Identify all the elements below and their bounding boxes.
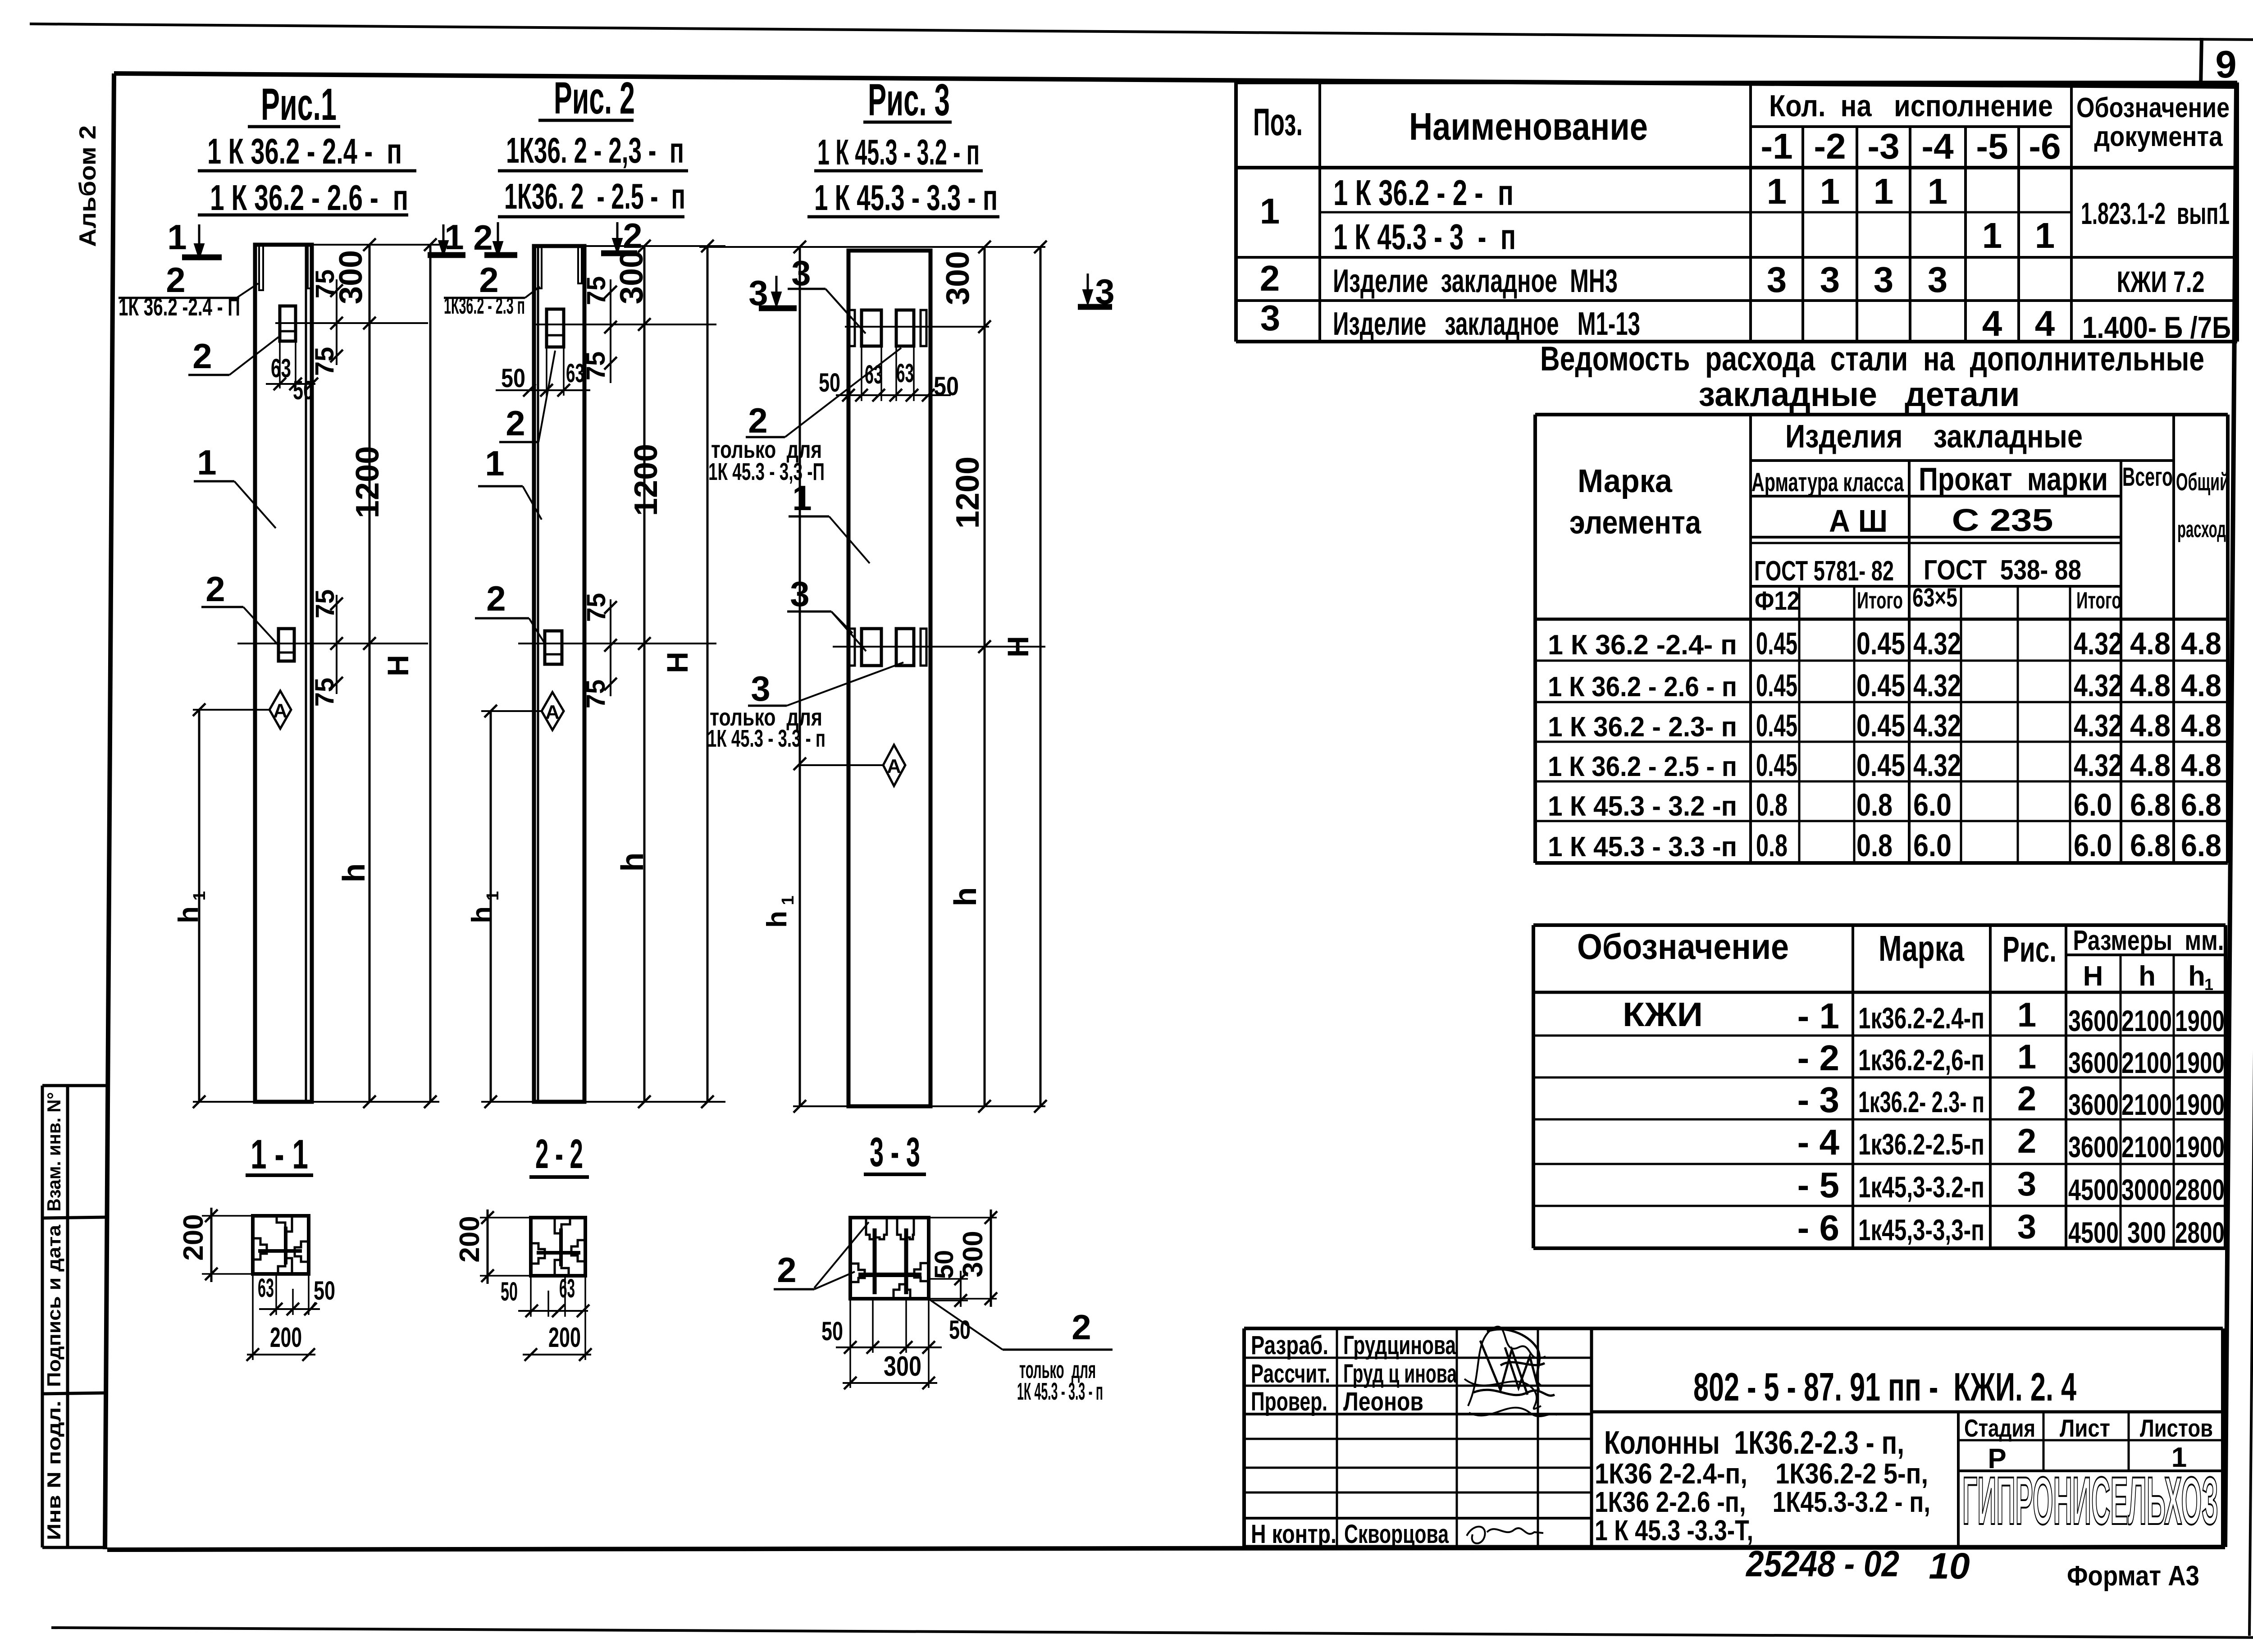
figure 1 extension line top [255,244,439,246]
svg-text:0.8: 0.8 [1756,787,1788,822]
svg-text:1200: 1200 [628,444,664,516]
svg-text:1к45,3-3,3-п: 1к45,3-3,3-п [1858,1213,1984,1246]
svg-text:-6: -6 [2029,126,2061,166]
svg-text:1к36.2-2.4-п: 1к36.2-2.4-п [1858,1001,1984,1035]
svg-text:50: 50 [293,376,314,405]
svg-text:4.8: 4.8 [2181,626,2221,661]
svg-text:50: 50 [930,1250,959,1279]
figure 2 section mark 2 right [616,222,619,242]
svg-text:1к36.2-2,6-п: 1к36.2-2,6-п [1858,1043,1984,1077]
svg-text:3: 3 [1874,260,1894,300]
section 2-2 channel top [555,1219,570,1233]
svg-text:1 - 1: 1 - 1 [251,1132,308,1177]
svg-text:Кол. на исполнение: Кол. на исполнение [1769,89,2053,123]
svg-text:Формат А3: Формат А3 [2067,1561,2199,1592]
svg-text:1: 1 [1260,191,1280,231]
svg-text:1900: 1900 [2175,1046,2225,1079]
svg-text:Марка: Марка [1578,463,1673,499]
svg-text:6.0: 6.0 [2074,787,2112,822]
section 2-2 channel right [571,1240,584,1261]
figure 1 dim text 300 [333,250,369,304]
figure 1 top notch left [259,245,263,290]
svg-text:Скворцова: Скворцова [1344,1520,1449,1549]
svg-text:Наименование: Наименование [1409,105,1648,148]
figure 3 top extension line [699,246,1045,248]
svg-text:Рис.: Рис. [2002,929,2057,969]
svg-text:3: 3 [790,574,809,614]
svg-text:2: 2 [1072,1307,1091,1347]
svg-text:63: 63 [559,1274,575,1303]
svg-text:10: 10 [1929,1546,1970,1587]
figure 3 dim text 1200 [950,456,986,529]
svg-text:6.8: 6.8 [2181,787,2221,822]
svg-text:Прокат марки: Прокат марки [1919,461,2108,497]
svg-text:2: 2 [2017,1080,2036,1118]
steel table grid [1535,413,2228,416]
svg-text:1200: 1200 [350,446,386,518]
figure 3 section A diamond [883,745,905,786]
album label [75,125,101,247]
svg-text:4.32: 4.32 [1913,626,1961,661]
svg-text:1: 1 [2017,996,2036,1034]
figure 1 dim text h [336,863,371,883]
svg-text:Стадия: Стадия [1964,1414,2035,1442]
figure 3 extension line bottom [793,1105,1045,1107]
svg-text:0.45: 0.45 [1756,748,1797,783]
svg-text:63: 63 [258,1273,274,1303]
svg-text:75: 75 [310,678,339,707]
svg-text:0.8: 0.8 [1756,828,1788,863]
svg-text:1: 1 [197,443,216,482]
svg-text:4.8: 4.8 [2130,708,2171,743]
svg-text:- 3: - 3 [1797,1080,1839,1120]
svg-text:4.32: 4.32 [1913,668,1961,703]
section 3-3 channel bottom [894,1284,910,1298]
figure 3 level line row2 [833,646,1045,648]
svg-text:200: 200 [178,1214,209,1260]
svg-text:1900: 1900 [2175,1004,2225,1037]
svg-text:2: 2 [506,403,525,443]
figure 2 upper embed plate 2 [547,309,564,347]
figure 2 dim line H [707,246,709,1102]
svg-text:Инв N подл.: Инв N подл. [43,1401,64,1540]
figure 2 top notch right [578,246,582,283]
svg-text:Н: Н [661,652,694,673]
svg-text:-2: -2 [1814,126,1846,166]
svg-text:75: 75 [310,269,340,299]
svg-text:1 К 36.2 - 2.3- п: 1 К 36.2 - 2.3- п [1548,712,1737,743]
svg-text:Листов: Листов [2140,1414,2213,1442]
svg-text:50: 50 [314,1276,335,1305]
section 1-1 center cross [258,1249,302,1253]
figure 2 top notch left [535,246,542,288]
svg-text:А Ш: А Ш [1829,503,1888,538]
svg-text:75: 75 [581,680,611,709]
section 2-2 center cross [537,1251,580,1255]
svg-text:h: h [615,853,650,872]
svg-text:3: 3 [1260,298,1281,338]
svg-text:25248 - 02: 25248 - 02 [1745,1543,1899,1584]
svg-text:4.8: 4.8 [2130,668,2171,703]
svg-text:75: 75 [582,593,611,622]
svg-text:3600: 3600 [2068,1130,2119,1164]
svg-text:-5: -5 [1976,126,2008,166]
title block grid [1244,1327,2223,1330]
svg-text:0.45: 0.45 [1756,668,1797,703]
svg-text:Альбом 2: Альбом 2 [75,125,101,247]
svg-text:2: 2 [486,579,506,618]
section 1-1 dim 200 bottom [252,1274,254,1360]
figure 3 dim text H [1001,636,1035,657]
svg-text:2100: 2100 [2121,1004,2172,1037]
svg-text:3: 3 [791,253,811,293]
svg-text:1К 45.3 - 3.3 - п: 1К 45.3 - 3.3 - п [707,725,825,752]
outer border top line [30,24,2253,40]
svg-text:0.45: 0.45 [1856,626,1905,661]
title block signature scribbles [1468,1327,1546,1406]
svg-text:1: 1 [1820,171,1840,211]
svg-text:1 К 36.2 -2.4- п: 1 К 36.2 -2.4- п [1548,630,1737,661]
section 1-1 channel bottom [278,1258,292,1273]
svg-text:Рис.1: Рис.1 [261,79,337,130]
figure 1 section mark 1 right [442,224,445,244]
svg-text:1: 1 [190,891,209,900]
svg-text:1К36.2 - 2.3 п: 1К36.2 - 2.3 п [444,293,525,319]
svg-text:63: 63 [896,359,914,388]
section 3-3 bar right [904,1228,908,1294]
svg-text:- 5: - 5 [1797,1165,1839,1205]
svg-text:- 1: - 1 [1797,996,1839,1036]
svg-text:1 К 36.2 - 2.4 - п: 1 К 36.2 - 2.4 - п [207,131,402,171]
svg-text:50: 50 [501,1277,518,1306]
svg-text:1К 36.2 -2.4 - П: 1К 36.2 -2.4 - П [119,292,240,321]
svg-text:1К36 2-2.4-п, 1К36.2-2 5-п,: 1К36 2-2.4-п, 1К36.2-2 5-п, [1595,1457,1928,1490]
section 2-2 channel bottom [555,1260,569,1275]
section 3-3 dim 50-50 bottom [849,1299,851,1388]
svg-text:элемента: элемента [1569,505,1701,541]
svg-text:4.8: 4.8 [2181,708,2221,743]
svg-text:1К36. 2 - 2,3 - п: 1К36. 2 - 2,3 - п [506,130,684,170]
figure 3 dims 50-63-63-50 [861,346,862,401]
svg-text:Взам. инв. N°: Взам. инв. N° [43,1092,64,1212]
svg-text:2800: 2800 [2175,1173,2225,1206]
figure 2 dim text 1200 [628,444,664,516]
svg-text:1 К 45.3 - 3.2 - п: 1 К 45.3 - 3.2 - п [817,132,980,172]
svg-text:Разраб.: Разраб. [1251,1331,1328,1360]
svg-text:300: 300 [884,1351,921,1382]
figure 2 dim line h1 [490,711,492,1102]
stamp label inv n podl [43,1401,64,1540]
svg-text:документа: документа [2094,121,2223,152]
svg-text:1 К 36.2 - 2.5 - п: 1 К 36.2 - 2.5 - п [1548,751,1737,782]
figure 1 dim text 1200 [350,446,386,518]
svg-text:1: 1 [485,443,504,483]
figure 1 column inner edge line [305,245,307,1102]
svg-text:4: 4 [2035,303,2055,343]
section 2-2 dim 50-63 [530,1276,532,1317]
section 1-1 channel left [254,1238,267,1260]
svg-text:Н контр.: Н контр. [1251,1520,1336,1549]
svg-text:Лист: Лист [2060,1414,2110,1442]
svg-text:1 К 45.3 - 3.3 - п: 1 К 45.3 - 3.3 - п [814,178,998,218]
figure 3 dim text 300 [940,251,976,305]
svg-text:0.45: 0.45 [1856,708,1905,743]
svg-text:6.0: 6.0 [2074,828,2112,863]
svg-text:3: 3 [1820,260,1840,300]
svg-text:2: 2 [192,336,212,376]
section 3-3 dim 300 right [929,1217,997,1218]
section 1-1 channel top [277,1217,292,1232]
svg-text:Итого: Итого [1857,588,1903,614]
svg-text:300: 300 [614,250,650,304]
figure 3 column body [848,251,930,1106]
figure 2 column inner edge line [537,246,539,1102]
svg-text:200: 200 [548,1322,581,1353]
figure 3 embeds row2 [849,629,855,666]
svg-text:3: 3 [2017,1208,2036,1246]
section 2-2 dim 200 bottom [584,1276,586,1360]
svg-text:Изделие закладное М1-13: Изделие закладное М1-13 [1333,306,1640,342]
figure 1 dim line h1 [198,710,201,1102]
svg-text:h: h [948,887,983,907]
figure 2 dim line 300-1200-h [643,246,646,1102]
svg-text:Леонов: Леонов [1343,1387,1423,1416]
figure 1 mini dim 75 lower [336,595,337,694]
svg-text:Поз.: Поз. [1253,101,1303,144]
svg-text:1200: 1200 [950,456,986,529]
figure 1 upper embed plate 2 [280,306,296,341]
svg-text:200: 200 [270,1322,302,1353]
svg-text:h: h [762,911,793,928]
svg-text:А: А [545,701,560,723]
svg-text:Провер.: Провер. [1251,1387,1327,1416]
svg-text:2: 2 [777,1250,796,1290]
svg-text:50: 50 [501,364,525,393]
svg-text:Ф12: Ф12 [1755,586,1800,616]
svg-text:- 4: - 4 [1797,1122,1840,1162]
figure 2 extension line top [534,245,725,247]
svg-text:1: 1 [1767,171,1787,211]
svg-text:50: 50 [819,368,840,397]
section 3-3 bar left [873,1228,877,1294]
svg-text:Арматура класса: Арматура класса [1751,468,1904,497]
parts table grid [1236,81,2237,84]
stamp label vzam inv [43,1092,64,1212]
svg-text:3600: 3600 [2068,1088,2119,1121]
svg-text:1: 1 [792,478,812,518]
svg-text:h: h [466,906,497,923]
svg-text:А: А [887,755,901,777]
svg-text:75: 75 [581,351,611,381]
svg-text:-4: -4 [1921,126,1954,166]
figure 2 mini dim 75 upper [610,279,611,383]
svg-text:-3: -3 [1867,126,1899,166]
svg-text:1: 1 [444,217,464,257]
section 3-3 channel top right [897,1218,914,1239]
svg-text:расход: расход [2177,516,2226,543]
svg-text:2 - 2: 2 - 2 [535,1131,583,1177]
svg-text:6.0: 6.0 [1913,828,1952,863]
section 1-1 dim 200 left [202,1215,253,1217]
section 3-3 channel mid left [851,1264,865,1282]
svg-text:75: 75 [310,347,339,376]
figure 2 mini dim 50-63 [546,347,547,396]
figure 3 dim text h [948,887,983,907]
svg-text:3: 3 [751,669,770,708]
section 2-2 body [531,1218,585,1276]
svg-text:Всего: Всего [2122,462,2173,492]
svg-text:4.32: 4.32 [1913,748,1961,783]
svg-text:1 К 36.2 - 2.6 - п: 1 К 36.2 - 2.6 - п [210,178,408,218]
stamp label podpis i data [43,1224,64,1387]
section 3-3 bar horizontal [858,1273,921,1277]
svg-text:4.32: 4.32 [2074,668,2122,703]
svg-text:Рис. 2: Рис. 2 [554,73,635,123]
svg-text:С 235: С 235 [1952,502,2053,538]
figure 3 level line row1 [845,326,989,328]
svg-text:9: 9 [2215,43,2236,86]
svg-text:Н: Н [1001,636,1035,657]
main drawing frame [114,73,2236,87]
svg-text:1 К 45.3 - 3.2 -п: 1 К 45.3 - 3.2 -п [1548,791,1737,822]
svg-text:63: 63 [566,359,584,388]
svg-text:0.45: 0.45 [1756,626,1797,661]
figure 1 dim line H [429,245,432,1102]
svg-text:1: 1 [167,217,187,257]
svg-text:1 К 45.3 - 3.3 -п: 1 К 45.3 - 3.3 -п [1548,831,1737,863]
svg-text:4.8: 4.8 [2130,748,2171,783]
figure 1 lower embed plate 2 [278,629,294,661]
figure 3 dim text h1 [762,911,793,928]
svg-text:2100: 2100 [2121,1130,2172,1164]
svg-text:0.45: 0.45 [1856,668,1905,703]
section 2-2 dim 200 left [480,1217,531,1218]
svg-text:0.8: 0.8 [1856,828,1893,863]
svg-text:1900: 1900 [2175,1088,2225,1121]
svg-text:Итого: Итого [2076,588,2121,614]
svg-text:4.32: 4.32 [2074,626,2122,661]
page number cell [2201,38,2202,87]
svg-text:3: 3 [1928,260,1948,300]
figure 2 dim text 300 [614,250,650,304]
figure 3 section mark 3 right [1087,274,1089,293]
section 3-3 channel mid right [914,1263,928,1281]
svg-text:50: 50 [934,372,959,401]
figure 2 lower embed plate 2 [545,631,562,664]
section 3-3 channel top left [866,1218,887,1239]
svg-text:2100: 2100 [2121,1088,2172,1121]
svg-text:1 К 36.2 - 2.6 - п: 1 К 36.2 - 2.6 - п [1548,671,1737,703]
svg-text:2: 2 [473,218,493,257]
svg-text:1: 1 [779,895,798,905]
outer border right line [2249,40,2253,1636]
figure 1 extension line lower embed [237,643,428,644]
svg-text:1: 1 [2017,1038,2036,1076]
svg-text:1900: 1900 [2175,1130,2225,1164]
svg-text:6.8: 6.8 [2130,828,2171,863]
svg-text:2800: 2800 [2175,1216,2225,1249]
svg-text:1: 1 [483,891,502,900]
svg-text:75: 75 [582,276,611,306]
svg-text:4: 4 [1982,303,2002,343]
svg-text:1К36 2-2.6 -п, 1К45.3-3.2 -: 1К36 2-2.6 -п, 1К45.3-3.2 - п, [1595,1486,1930,1518]
svg-text:Н: Н [381,655,415,676]
svg-text:h: h [173,906,204,923]
svg-text:Колонны 1К36.2-2.3 - п,: Колонны 1К36.2-2.3 - п, [1604,1425,1904,1461]
svg-text:300: 300 [2127,1216,2166,1249]
svg-text:4.32: 4.32 [2074,748,2122,783]
svg-text:1: 1 [2035,215,2055,256]
svg-text:4500: 4500 [2068,1173,2119,1206]
svg-text:1.823.1-2 вып1: 1.823.1-2 вып1 [2081,196,2230,231]
svg-text:4.8: 4.8 [2181,748,2221,783]
svg-text:h: h [336,863,371,883]
figure 2 section A diamond [542,692,564,730]
svg-text:6.8: 6.8 [2130,787,2171,822]
svg-text:2100: 2100 [2121,1046,2172,1079]
svg-text:4.32: 4.32 [2074,708,2122,743]
section 1-1 channel right [295,1241,308,1262]
figure 1 mini dim 75 upper [336,279,337,365]
svg-text:КЖИ 7.2: КЖИ 7.2 [2117,265,2205,298]
svg-text:200: 200 [454,1216,485,1262]
svg-text:Рис. 3: Рис. 3 [868,75,950,125]
figure 2 dim text h1 [466,906,497,923]
svg-text:1 К 36.2 - 2 - п: 1 К 36.2 - 2 - п [1333,173,1514,213]
svg-text:75: 75 [310,589,340,619]
figure 1 dim text H [381,655,415,676]
svg-text:- 2: - 2 [1797,1038,1839,1078]
svg-text:ГОСТ 5781- 82: ГОСТ 5781- 82 [1754,556,1894,587]
svg-text:закладные детали: закладные детали [1699,375,2020,414]
svg-text:1: 1 [1928,171,1948,211]
figure 1 mini dim 63-50 [279,341,281,388]
svg-text:4500: 4500 [2068,1216,2119,1249]
figure 2 dim text h [615,853,650,872]
svg-text:300: 300 [958,1231,989,1277]
figure 3 dim line h1 [799,247,801,1106]
svg-text:1 К 45.3 -3.3-Т,: 1 К 45.3 -3.3-Т, [1595,1514,1753,1547]
svg-text:Размеры мм.: Размеры мм. [2073,925,2224,956]
svg-text:63×5: 63×5 [1912,583,1957,612]
svg-text:Общий: Общий [2176,468,2229,496]
svg-text:2: 2 [748,401,767,440]
figure 3 embeds row1 [849,310,855,346]
section 3-3 body [850,1218,929,1299]
figure 2 extension line upper embed [532,324,716,325]
title block signature skvorts [1467,1527,1543,1543]
svg-text:А: А [273,700,287,722]
svg-text:802 - 5 - 87. 91 пп - КЖИ. 2.: 802 - 5 - 87. 91 пп - КЖИ. 2. 4 [1693,1364,2076,1409]
svg-text:Изделия закладные: Изделия закладные [1785,419,2083,455]
svg-text:1к36.2-2.5-п: 1к36.2-2.5-п [1858,1127,1984,1161]
svg-text:Груд ц инова: Груд ц инова [1343,1359,1457,1388]
figure 2 dim text H [661,652,694,673]
svg-text:h: h [2188,961,2205,992]
svg-text:ГИПРОНИСЕЛЬХОЗ: ГИПРОНИСЕЛЬХОЗ [1962,1463,2218,1538]
section 1-1 dim 63-50 [275,1274,277,1315]
svg-text:Н: Н [2083,961,2103,992]
svg-text:2: 2 [1260,258,1280,298]
svg-text:63: 63 [271,354,291,383]
section 3-3 dim 50 right [930,1278,968,1280]
outer border bottom line [51,1628,2253,1638]
svg-text:2: 2 [2017,1122,2036,1160]
svg-text:50: 50 [821,1317,843,1346]
figure 1 dim line 300-1200-h [369,245,371,1102]
figure 1 top notch right [308,245,311,288]
svg-text:1к36.2- 2.3- п: 1к36.2- 2.3- п [1858,1085,1984,1118]
